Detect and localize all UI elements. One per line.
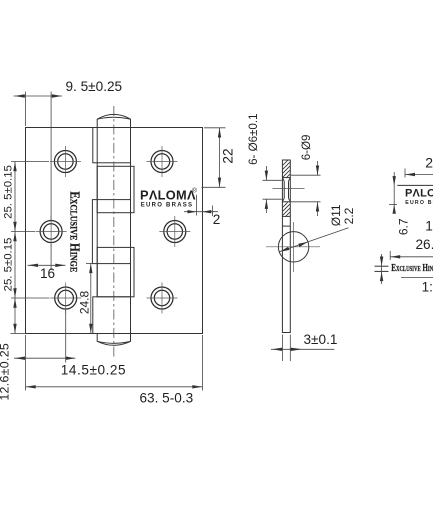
svg-text:63. 5-0.3: 63. 5-0.3 <box>140 391 194 406</box>
dim 63.5 arrows <box>26 385 36 388</box>
svg-text:24.8: 24.8 <box>78 290 92 314</box>
dim O9 ext lines <box>291 174 321 176</box>
svg-text:25. 5±0.15: 25. 5±0.15 <box>3 238 15 292</box>
dim 3 line <box>271 348 334 350</box>
leaf bar outline <box>282 160 290 333</box>
knuckle 3 (left) <box>92 200 130 264</box>
hole center line side view <box>273 188 305 190</box>
dim 16 ext line <box>50 244 52 270</box>
dim O9 line <box>317 161 319 175</box>
svg-text:6.7: 6.7 <box>397 218 411 235</box>
rv dim line 26 <box>389 251 391 260</box>
svg-text:12.6±0.25: 12.6±0.25 <box>0 343 12 401</box>
knuckle 2 (right) <box>97 166 134 212</box>
left chain arrows <box>13 162 16 172</box>
dim O6 arrows <box>265 171 268 181</box>
dim 22 ext lines <box>204 127 226 129</box>
svg-text:9. 5±0.25: 9. 5±0.25 <box>66 79 123 94</box>
dim O6 line <box>265 166 267 180</box>
dim 3 ext lines <box>281 335 283 362</box>
dim 22 line <box>219 128 221 188</box>
knuckle circle O11 <box>278 232 308 262</box>
left dim chain line <box>14 162 16 334</box>
hole A1 <box>54 151 76 173</box>
screw holes front view <box>40 151 186 310</box>
svg-text:®: ® <box>192 186 197 194</box>
hole B3 <box>151 287 173 309</box>
hole B1 <box>151 151 173 173</box>
dim 16 arrows <box>28 264 38 267</box>
svg-text:2.2: 2.2 <box>342 207 356 224</box>
svg-text:Exclusive Hinge: Exclusive Hinge <box>67 191 82 272</box>
svg-text:6-Ø9: 6-Ø9 <box>300 135 313 161</box>
svg-text:Exclusive Hinge: Exclusive Hinge <box>391 262 433 274</box>
svg-text:6- Ø6±0.1: 6- Ø6±0.1 <box>247 113 260 164</box>
countersink hole section <box>282 177 290 179</box>
hole crosshairs <box>36 146 191 314</box>
hole B2 <box>164 221 186 243</box>
knuckle 1 (left) <box>93 128 131 163</box>
hole A3 <box>55 287 77 309</box>
O11 diameter leader <box>279 228 348 252</box>
rv bottom line <box>401 276 433 278</box>
dim 22 arrows <box>218 128 221 138</box>
svg-text:EURO BRASS: EURO BRASS <box>141 203 194 209</box>
pin top cap <box>97 114 130 127</box>
dim 9.5 arrows <box>15 94 25 97</box>
svg-text:EURO BRASS: EURO BRASS <box>405 200 433 206</box>
circle crosshairs <box>266 246 320 248</box>
left dim chain ext lines <box>11 161 49 163</box>
dim 2 ext line <box>196 195 198 216</box>
dim 2 line <box>184 211 218 213</box>
hatch upper <box>272 150 298 204</box>
hatch lower <box>272 192 298 238</box>
svg-text:14.5±0.25: 14.5±0.25 <box>61 362 126 377</box>
dim 3 arrows <box>272 348 282 351</box>
dim O9 arrows <box>316 166 319 176</box>
svg-text:Ø11: Ø11 <box>329 204 343 226</box>
svg-text:PΛLOMΛ: PΛLOMΛ <box>405 187 433 199</box>
dim 9.5 line <box>14 95 63 97</box>
pin centerline <box>113 106 115 357</box>
svg-text:1:1: 1:1 <box>425 218 433 233</box>
pin bottom cap <box>97 334 130 346</box>
rv top edge <box>397 184 433 186</box>
svg-text:3±0.1: 3±0.1 <box>304 332 338 347</box>
svg-text:1:1: 1:1 <box>422 279 433 294</box>
hole A2 <box>40 221 62 243</box>
knuckle barrel core <box>96 128 98 297</box>
svg-text:25. 5±0.15: 25. 5±0.15 <box>3 165 15 219</box>
svg-text:2: 2 <box>425 154 433 170</box>
dim 63.5 ext line <box>202 335 204 391</box>
knuckle 5 (left) <box>93 297 131 334</box>
svg-text:16: 16 <box>40 266 55 281</box>
svg-text:PΛLOMΛ: PΛLOMΛ <box>140 188 196 203</box>
dim 14.5 ext lines <box>25 335 27 391</box>
rv leaf edge lines <box>375 265 389 267</box>
rv leaf thickness dim <box>381 254 383 284</box>
dim 2 arrows <box>188 210 197 213</box>
hinge leaf outline (front view) <box>26 128 203 334</box>
dim 9.5 ext lines <box>25 92 27 127</box>
rv dim 6.7 <box>389 203 397 205</box>
knuckle 4 (right) <box>97 247 134 296</box>
rv dim line top <box>404 169 406 178</box>
dim 24.8 arrows <box>89 264 92 274</box>
dim 63.5 line <box>26 386 203 388</box>
svg-text:22: 22 <box>221 148 236 163</box>
dim O6 ext lines <box>263 179 282 181</box>
dim 24.8 line <box>90 263 92 333</box>
dim 14.5 line <box>14 357 75 359</box>
svg-text:26.5: 26.5 <box>416 237 433 252</box>
dim 16 line <box>28 264 66 266</box>
dim 24.8 ext line <box>86 262 93 264</box>
dim 14.5 arrows <box>15 357 25 360</box>
svg-text:2: 2 <box>213 212 221 227</box>
